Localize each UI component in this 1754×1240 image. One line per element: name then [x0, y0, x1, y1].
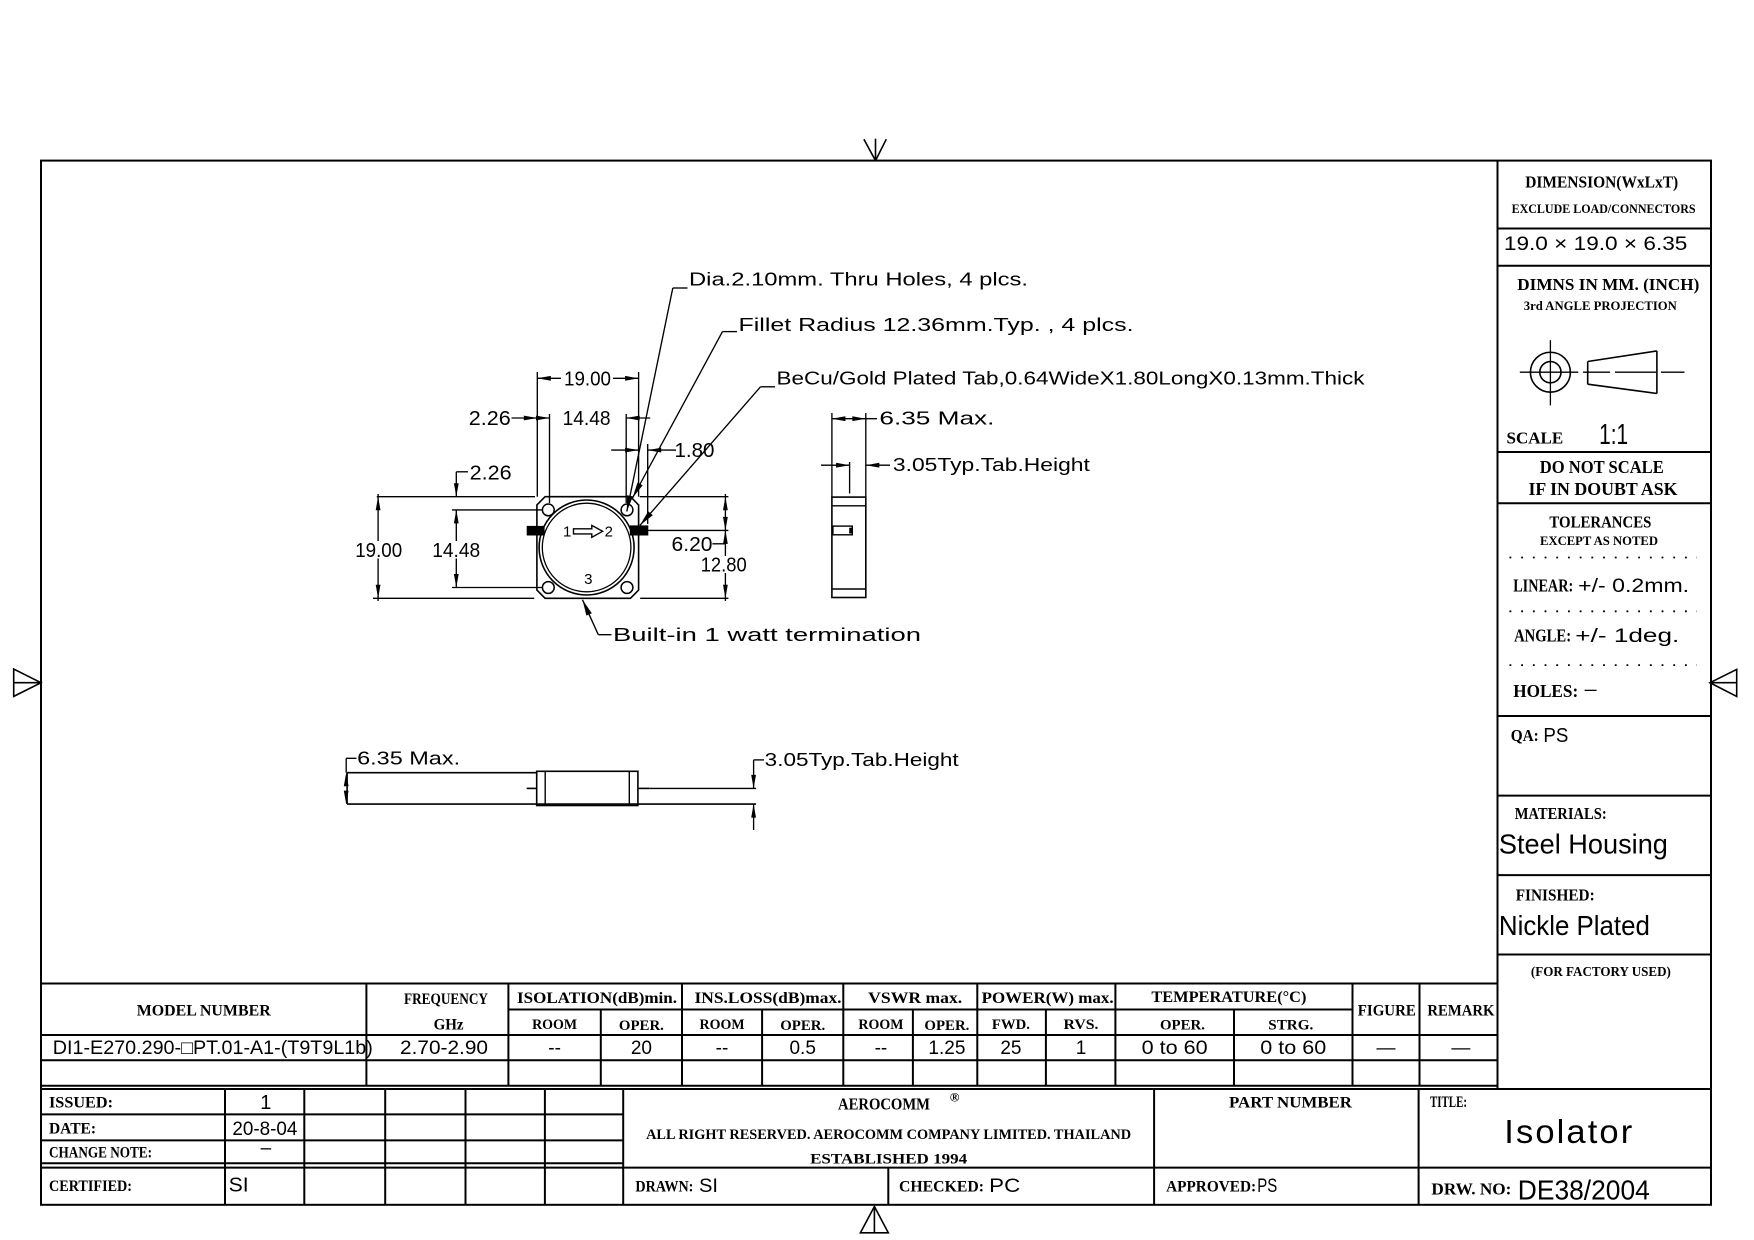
svg-text:1: 1 — [563, 524, 571, 541]
svg-text:FREQUENCY: FREQUENCY — [404, 991, 488, 1008]
svg-text:MODEL NUMBER: MODEL NUMBER — [137, 1002, 271, 1019]
svg-text:TEMPERATURE(°C): TEMPERATURE(°C) — [1151, 989, 1306, 1006]
svg-text:19.00: 19.00 — [564, 368, 611, 390]
svg-text:0 to 60: 0 to 60 — [1260, 1038, 1326, 1059]
svg-text:DE38/2004: DE38/2004 — [1518, 1175, 1650, 1206]
svg-text:3: 3 — [584, 571, 592, 588]
svg-text:HOLES:: HOLES: — [1513, 681, 1578, 701]
svg-text:--: -- — [548, 1038, 561, 1059]
svg-text:BeCu/Gold Plated Tab,0.64WideX: BeCu/Gold Plated Tab,0.64WideX1.80LongX0… — [777, 368, 1366, 388]
svg-text:Dia.2.10mm. Thru Holes, 4 plcs: Dia.2.10mm. Thru Holes, 4 plcs. — [689, 270, 1028, 290]
svg-text:2.70-2.90: 2.70-2.90 — [400, 1038, 488, 1059]
svg-text:DIMNS IN MM. (INCH): DIMNS IN MM. (INCH) — [1517, 275, 1699, 294]
svg-text:19.00: 19.00 — [355, 540, 402, 562]
svg-text:6.20: 6.20 — [672, 534, 713, 556]
svg-text:VSWR max.: VSWR max. — [868, 990, 962, 1007]
svg-text:ISOLATION(dB)min.: ISOLATION(dB)min. — [517, 990, 677, 1007]
svg-text:PS: PS — [1543, 725, 1568, 747]
svg-text:FIGURE: FIGURE — [1358, 1002, 1416, 1019]
svg-text:OPER.: OPER. — [924, 1018, 969, 1034]
svg-text:12.80: 12.80 — [701, 555, 747, 577]
svg-text:STRG.: STRG. — [1268, 1017, 1313, 1033]
svg-text:DIMENSION(WxLxT): DIMENSION(WxLxT) — [1525, 173, 1678, 192]
svg-text:ROOM: ROOM — [532, 1017, 577, 1033]
svg-text:2.26: 2.26 — [470, 462, 512, 484]
svg-text:CHANGE NOTE:: CHANGE NOTE: — [49, 1144, 152, 1161]
svg-text:APPROVED:: APPROVED: — [1166, 1179, 1256, 1196]
svg-text:CHECKED:: CHECKED: — [899, 1179, 984, 1196]
svg-text:3rd ANGLE PROJECTION: 3rd ANGLE PROJECTION — [1524, 299, 1677, 313]
svg-text:GHz: GHz — [434, 1016, 464, 1033]
svg-text:+/- 1deg.: +/- 1deg. — [1575, 626, 1679, 647]
svg-text:1: 1 — [1076, 1038, 1087, 1059]
svg-text:1.25: 1.25 — [928, 1038, 965, 1059]
svg-text:FINISHED:: FINISHED: — [1516, 885, 1595, 904]
svg-text:SI: SI — [229, 1175, 249, 1197]
svg-text:6.35 Max.: 6.35 Max. — [879, 409, 994, 429]
svg-text:19.0 × 19.0 × 6.35: 19.0 × 19.0 × 6.35 — [1504, 234, 1688, 255]
svg-text:FWD.: FWD. — [992, 1017, 1030, 1033]
svg-text:DI1-E270.290-□PT.01-A1-(T9T9L1: DI1-E270.290-□PT.01-A1-(T9T9L1b) — [53, 1038, 373, 1059]
svg-text:TITLE:: TITLE: — [1430, 1094, 1467, 1111]
svg-text:QA:: QA: — [1511, 726, 1539, 745]
svg-text:2: 2 — [605, 524, 613, 541]
svg-text:1:1: 1:1 — [1599, 419, 1628, 451]
svg-text:--: -- — [875, 1038, 888, 1059]
svg-text:20-8-04: 20-8-04 — [232, 1119, 297, 1140]
svg-text:DATE:: DATE: — [49, 1121, 96, 1138]
svg-text:+/- 0.2mm.: +/- 0.2mm. — [1578, 576, 1689, 597]
svg-text:20: 20 — [631, 1038, 652, 1059]
svg-text:DO NOT SCALE: DO NOT SCALE — [1540, 457, 1664, 477]
svg-text:14.48: 14.48 — [563, 408, 611, 430]
svg-text:INS.LOSS(dB)max.: INS.LOSS(dB)max. — [695, 990, 842, 1007]
svg-text:IF IN DOUBT ASK: IF IN DOUBT ASK — [1529, 479, 1678, 499]
svg-text:2.26: 2.26 — [469, 408, 511, 430]
svg-text:RVS.: RVS. — [1064, 1017, 1099, 1033]
svg-text:ROOM: ROOM — [858, 1017, 903, 1033]
svg-text:3.05Typ.Tab.Height: 3.05Typ.Tab.Height — [893, 455, 1090, 475]
svg-text:POWER(W) max.: POWER(W) max. — [982, 990, 1114, 1007]
svg-text:—: — — [1377, 1038, 1396, 1059]
svg-text:ESTABLISHED 1994: ESTABLISHED 1994 — [810, 1151, 968, 1167]
svg-text:1: 1 — [260, 1092, 271, 1114]
svg-text:0 to 60: 0 to 60 — [1142, 1038, 1208, 1059]
svg-text:--: -- — [716, 1038, 729, 1059]
svg-text:ALL RIGHT RESERVED. AEROCOMM C: ALL RIGHT RESERVED. AEROCOMM COMPANY LIM… — [646, 1127, 1131, 1143]
svg-text:EXCLUDE LOAD/CONNECTORS: EXCLUDE LOAD/CONNECTORS — [1512, 201, 1696, 216]
svg-text:14.48: 14.48 — [432, 540, 480, 562]
svg-text:DRW. NO:: DRW. NO: — [1431, 1180, 1511, 1199]
svg-text:–: – — [261, 1138, 272, 1159]
svg-text:MATERIALS:: MATERIALS: — [1515, 804, 1607, 823]
svg-text:(FOR FACTORY USED): (FOR FACTORY USED) — [1531, 964, 1671, 979]
svg-text:SI: SI — [699, 1176, 718, 1197]
svg-text:ISSUED:: ISSUED: — [49, 1095, 113, 1112]
svg-text:Built-in 1 watt termination: Built-in 1 watt termination — [613, 625, 921, 645]
svg-text:EXCEPT AS NOTED: EXCEPT AS NOTED — [1540, 533, 1658, 548]
svg-text:Steel Housing: Steel Housing — [1499, 829, 1668, 860]
svg-text:1.80: 1.80 — [675, 440, 715, 462]
svg-text:PS: PS — [1257, 1176, 1277, 1197]
svg-text:25: 25 — [1000, 1038, 1021, 1059]
svg-text:Fillet Radius 12.36mm.Typ. , 4: Fillet Radius 12.36mm.Typ. , 4 plcs. — [739, 315, 1134, 335]
svg-text:REMARK: REMARK — [1427, 1002, 1495, 1019]
svg-text:SCALE: SCALE — [1507, 428, 1564, 447]
svg-text:3.05Typ.Tab.Height: 3.05Typ.Tab.Height — [765, 750, 959, 770]
svg-text:DRAWN:: DRAWN: — [635, 1179, 693, 1196]
svg-text:LINEAR:: LINEAR: — [1513, 575, 1573, 595]
svg-text:Isolator: Isolator — [1504, 1113, 1634, 1150]
svg-text:OPER.: OPER. — [1160, 1017, 1205, 1033]
svg-text:OPER.: OPER. — [780, 1018, 825, 1034]
svg-text:–: – — [1585, 679, 1597, 700]
svg-text:AEROCOMM: AEROCOMM — [838, 1095, 930, 1114]
svg-text:CERTIFIED:: CERTIFIED: — [49, 1178, 132, 1195]
svg-text:ROOM: ROOM — [700, 1017, 745, 1033]
svg-text:Nickle Plated: Nickle Plated — [1499, 910, 1650, 941]
svg-text:OPER.: OPER. — [619, 1018, 664, 1034]
svg-text:0.5: 0.5 — [789, 1038, 815, 1059]
svg-text:PART NUMBER: PART NUMBER — [1229, 1094, 1353, 1111]
svg-text:PC: PC — [989, 1176, 1020, 1197]
svg-text:—: — — [1451, 1038, 1470, 1059]
svg-text:ANGLE:: ANGLE: — [1514, 625, 1571, 645]
svg-text:6.35 Max.: 6.35 Max. — [357, 748, 460, 768]
svg-text:TOLERANCES: TOLERANCES — [1549, 513, 1651, 532]
svg-text:®: ® — [950, 1090, 960, 1105]
